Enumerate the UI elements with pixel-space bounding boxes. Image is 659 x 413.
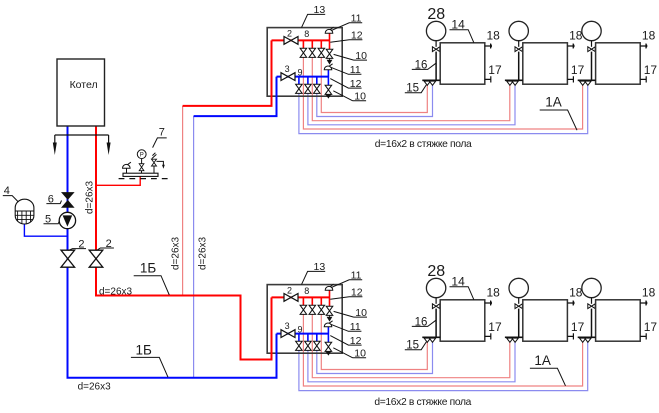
svg-text:2: 2 xyxy=(106,238,112,250)
svg-text:7: 7 xyxy=(159,127,165,139)
svg-text:d=26x3: d=26x3 xyxy=(99,287,133,298)
svg-text:1Б: 1Б xyxy=(140,261,157,276)
svg-text:Котел: Котел xyxy=(70,79,98,91)
svg-text:4: 4 xyxy=(4,185,10,197)
svg-text:P: P xyxy=(140,152,144,158)
svg-text:6: 6 xyxy=(48,193,54,205)
svg-text:1А: 1А xyxy=(534,353,551,368)
svg-text:1Б: 1Б xyxy=(136,343,153,358)
svg-text:2: 2 xyxy=(78,238,84,250)
svg-text:d=16x2 в стяжке пола: d=16x2 в стяжке пола xyxy=(374,397,471,408)
svg-text:d=26x3: d=26x3 xyxy=(171,236,182,270)
svg-text:d=26x3: d=26x3 xyxy=(198,236,209,270)
svg-text:d=16x2 в стяжке пола: d=16x2 в стяжке пола xyxy=(375,139,472,150)
svg-text:d=26x3: d=26x3 xyxy=(85,180,96,214)
svg-text:1А: 1А xyxy=(545,94,562,109)
svg-text:d=26x3: d=26x3 xyxy=(78,381,112,392)
svg-text:5: 5 xyxy=(45,214,51,226)
